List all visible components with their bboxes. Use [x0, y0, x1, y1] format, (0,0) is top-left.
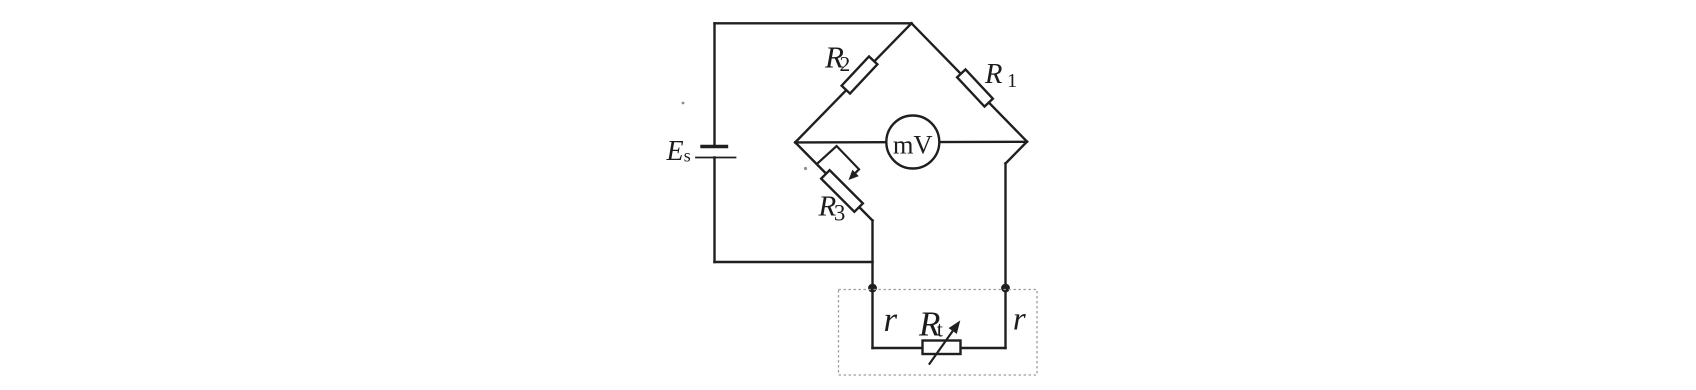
svg-text:3: 3	[834, 201, 846, 226]
svg-text:r: r	[884, 300, 898, 339]
wire: vertical from R3 arm down into box	[871, 221, 873, 349]
wire: bottom horizontal from battery to R3 branch	[715, 261, 873, 263]
svg-text:2: 2	[840, 52, 851, 76]
node dot left (bridge output to Rt box)	[868, 284, 877, 293]
svg-text:t: t	[937, 317, 943, 342]
wire: bridge upper-left arm (top vertex to left vertex)	[795, 23, 911, 142]
svg-text:R: R	[984, 59, 1002, 90]
wire: left vertical, top wire down to battery	[713, 23, 715, 146]
wire: bridge upper-right arm (top vertex to right vertex)	[912, 23, 1028, 141]
node dot right (bridge output to Rt box)	[1001, 284, 1010, 293]
resistor Rt body	[923, 341, 961, 355]
wire: bridge horizontal through meter	[795, 141, 1027, 144]
meter mV	[886, 116, 939, 169]
stray scan dot near battery top	[682, 102, 685, 105]
svg-text:E: E	[666, 136, 684, 167]
battery Es	[696, 147, 736, 158]
wire: right vertical down into box	[1004, 164, 1006, 349]
resistor R1 body	[957, 69, 993, 106]
resistor R3 body	[821, 170, 863, 212]
svg-text:1: 1	[1007, 70, 1017, 92]
wire: right vertex short diagonal down-left	[1006, 142, 1028, 164]
wire: bottom horizontal through Rt	[873, 347, 1006, 349]
wire: lower-left arm through R3	[795, 142, 872, 220]
svg-text:r: r	[1013, 302, 1026, 338]
wire: battery bottom lead down	[713, 158, 715, 263]
stray scan dot left of R3	[804, 167, 807, 170]
svg-text:s: s	[684, 145, 691, 165]
resistor R2 body	[842, 56, 878, 93]
dashed enclosure box around r, Rt, r	[839, 290, 1038, 376]
wire: top horizontal from battery to bridge top vertex	[715, 22, 912, 24]
R3 wiper arrow	[817, 146, 859, 180]
Rt adjustment arrow	[929, 320, 960, 364]
svg-text:mV: mV	[893, 130, 933, 160]
